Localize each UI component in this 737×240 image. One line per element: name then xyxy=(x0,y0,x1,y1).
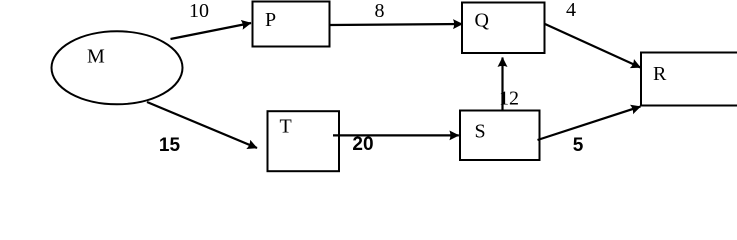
svg-text:Q: Q xyxy=(475,10,490,32)
node S (box) xyxy=(460,111,540,161)
svg-text:R: R xyxy=(653,63,667,85)
arrow S to R xyxy=(538,107,641,141)
svg-text:T: T xyxy=(280,116,292,138)
label 10 (edge M-P) xyxy=(189,0,209,22)
arrow P to Q xyxy=(330,24,463,25)
svg-text:S: S xyxy=(475,121,486,143)
arrow M to P xyxy=(171,23,252,39)
svg-text:M: M xyxy=(87,46,105,68)
label 8 (edge P-Q) xyxy=(375,0,385,22)
label 4 (edge Q-R) xyxy=(566,0,576,21)
label 5 (edge S-R, bold) xyxy=(573,135,584,156)
node Q (box) xyxy=(462,3,545,54)
svg-text:12: 12 xyxy=(499,88,519,110)
svg-text:10: 10 xyxy=(189,0,209,22)
label 15 (edge M-T, bold) xyxy=(159,135,181,156)
arrow T to S xyxy=(333,134,459,136)
svg-text:5: 5 xyxy=(573,135,584,156)
node T (box) xyxy=(268,111,340,171)
svg-text:4: 4 xyxy=(566,0,576,21)
arrow M to T xyxy=(147,102,257,148)
label 20 (edge T-S, bold) xyxy=(352,134,373,155)
svg-text:8: 8 xyxy=(375,0,385,22)
svg-text:P: P xyxy=(265,9,276,31)
label 12 (edge S-Q) xyxy=(499,88,519,110)
node M (ellipse) xyxy=(52,31,183,104)
arrow S to Q xyxy=(501,58,503,111)
svg-text:15: 15 xyxy=(159,135,181,156)
node R (box, clipped at right edge) xyxy=(641,53,737,106)
arrow Q to R xyxy=(545,24,641,68)
svg-text:20: 20 xyxy=(352,134,373,155)
node P (box) xyxy=(253,2,330,47)
